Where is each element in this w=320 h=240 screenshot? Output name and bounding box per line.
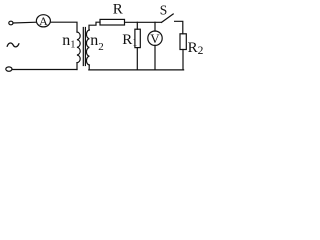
wire terminal to ammeter bbox=[13, 21, 36, 24]
wire R2 bottom lead bbox=[182, 50, 184, 70]
wire primary coil bottom bbox=[76, 63, 78, 70]
svg-text:A: A bbox=[39, 14, 48, 28]
wire switch to R2 corner bbox=[175, 21, 183, 34]
resistor R1 bbox=[135, 29, 140, 47]
transformer primary coil n1 bbox=[77, 32, 80, 63]
terminal bottom-left bbox=[6, 67, 12, 71]
wire bottom-left rail bbox=[12, 69, 77, 71]
wire V branch top bbox=[154, 22, 156, 31]
voltmeter V1 bbox=[148, 31, 162, 45]
svg-text:R: R bbox=[113, 2, 123, 18]
wire R1 branch top bbox=[136, 22, 138, 29]
svg-text:S: S bbox=[160, 3, 168, 18]
wire V bottom lead bbox=[154, 45, 156, 70]
resistor R2 bbox=[180, 34, 186, 50]
resistor R bbox=[100, 19, 125, 25]
wire ammeter to transformer primary bbox=[50, 22, 77, 32]
transformer secondary coil n2 bbox=[86, 30, 89, 65]
terminal top-left bbox=[9, 21, 13, 25]
switch S blade bbox=[162, 14, 174, 22]
svg-text:n2: n2 bbox=[90, 32, 104, 53]
AC source tilde bbox=[7, 43, 19, 47]
transformer core bbox=[82, 28, 84, 66]
wire bottom-right rail bbox=[89, 69, 184, 71]
wire secondary bottom lead bbox=[88, 65, 90, 70]
svg-text:V: V bbox=[150, 31, 160, 46]
wire R1 bottom lead bbox=[136, 48, 138, 70]
ammeter A1 bbox=[36, 15, 50, 27]
svg-text:R2: R2 bbox=[188, 40, 204, 57]
wire top rail R to switch bbox=[125, 21, 161, 23]
svg-text:n1: n1 bbox=[62, 32, 75, 51]
wire secondary top lead bbox=[89, 22, 100, 30]
